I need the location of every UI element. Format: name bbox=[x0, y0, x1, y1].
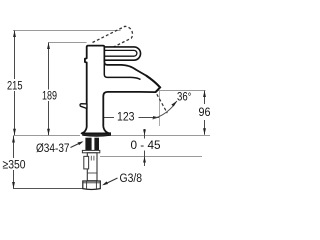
handle loop (solid) bbox=[104, 47, 140, 60]
svg-text:123: 123 bbox=[117, 110, 135, 124]
dimension 123 line bbox=[98, 117, 159, 119]
deck bottom line (max thickness) bbox=[100, 156, 202, 158]
dimension >=350 line bbox=[13, 136, 15, 189]
bottom reference line (>=350) bbox=[13, 188, 83, 190]
svg-text:Ø34-37: Ø34-37 bbox=[36, 141, 70, 155]
extension line handle top (189 reference) bbox=[48, 42, 87, 44]
svg-text:0 - 45: 0 - 45 bbox=[131, 138, 161, 152]
dimension 215 line bbox=[14, 31, 16, 136]
outlet vertical reference line bbox=[159, 91, 161, 126]
center axis line bbox=[96, 115, 98, 133]
spout tip emphasis bbox=[146, 76, 160, 93]
deck surface line right bbox=[106, 135, 210, 137]
pop-up rod (back) bbox=[80, 104, 87, 109]
extension line spout outlet (96 reference) bbox=[158, 90, 206, 92]
threaded shank dark bars bbox=[85, 138, 91, 150]
extension line top (215 height reference) bbox=[13, 30, 121, 32]
svg-text:≥350: ≥350 bbox=[3, 157, 26, 171]
handle raised position (dashed) bbox=[93, 26, 133, 54]
G3/8 nut bbox=[83, 181, 101, 190]
escutcheon flange (dark) bbox=[83, 133, 111, 137]
dimension 189 line bbox=[48, 43, 50, 136]
handle loop inner slot bbox=[105, 50, 137, 56]
mounting clip bbox=[84, 156, 89, 169]
deck surface line left bbox=[13, 135, 80, 137]
mounting washer bbox=[82, 150, 99, 152]
leader line diameter 34-37 bbox=[71, 142, 83, 148]
tube inner bore lines bbox=[91, 156, 94, 161]
svg-text:96: 96 bbox=[199, 105, 211, 119]
dimension 96 line bbox=[204, 91, 206, 135]
leader line G3/8 bbox=[104, 178, 118, 185]
dimension 0-45 line bbox=[144, 129, 146, 166]
svg-text:189: 189 bbox=[42, 89, 57, 103]
angle arc bbox=[153, 101, 177, 119]
svg-text:215: 215 bbox=[7, 79, 23, 93]
svg-text:G3/8: G3/8 bbox=[120, 171, 143, 185]
spout middle contour line bbox=[104, 64, 140, 80]
svg-text:36°: 36° bbox=[177, 90, 192, 104]
supply tube bbox=[87, 153, 97, 181]
spray direction dashed line bbox=[142, 81, 167, 114]
tube joint line bbox=[87, 172, 97, 174]
faucet body and spout outline bbox=[82, 46, 161, 134]
